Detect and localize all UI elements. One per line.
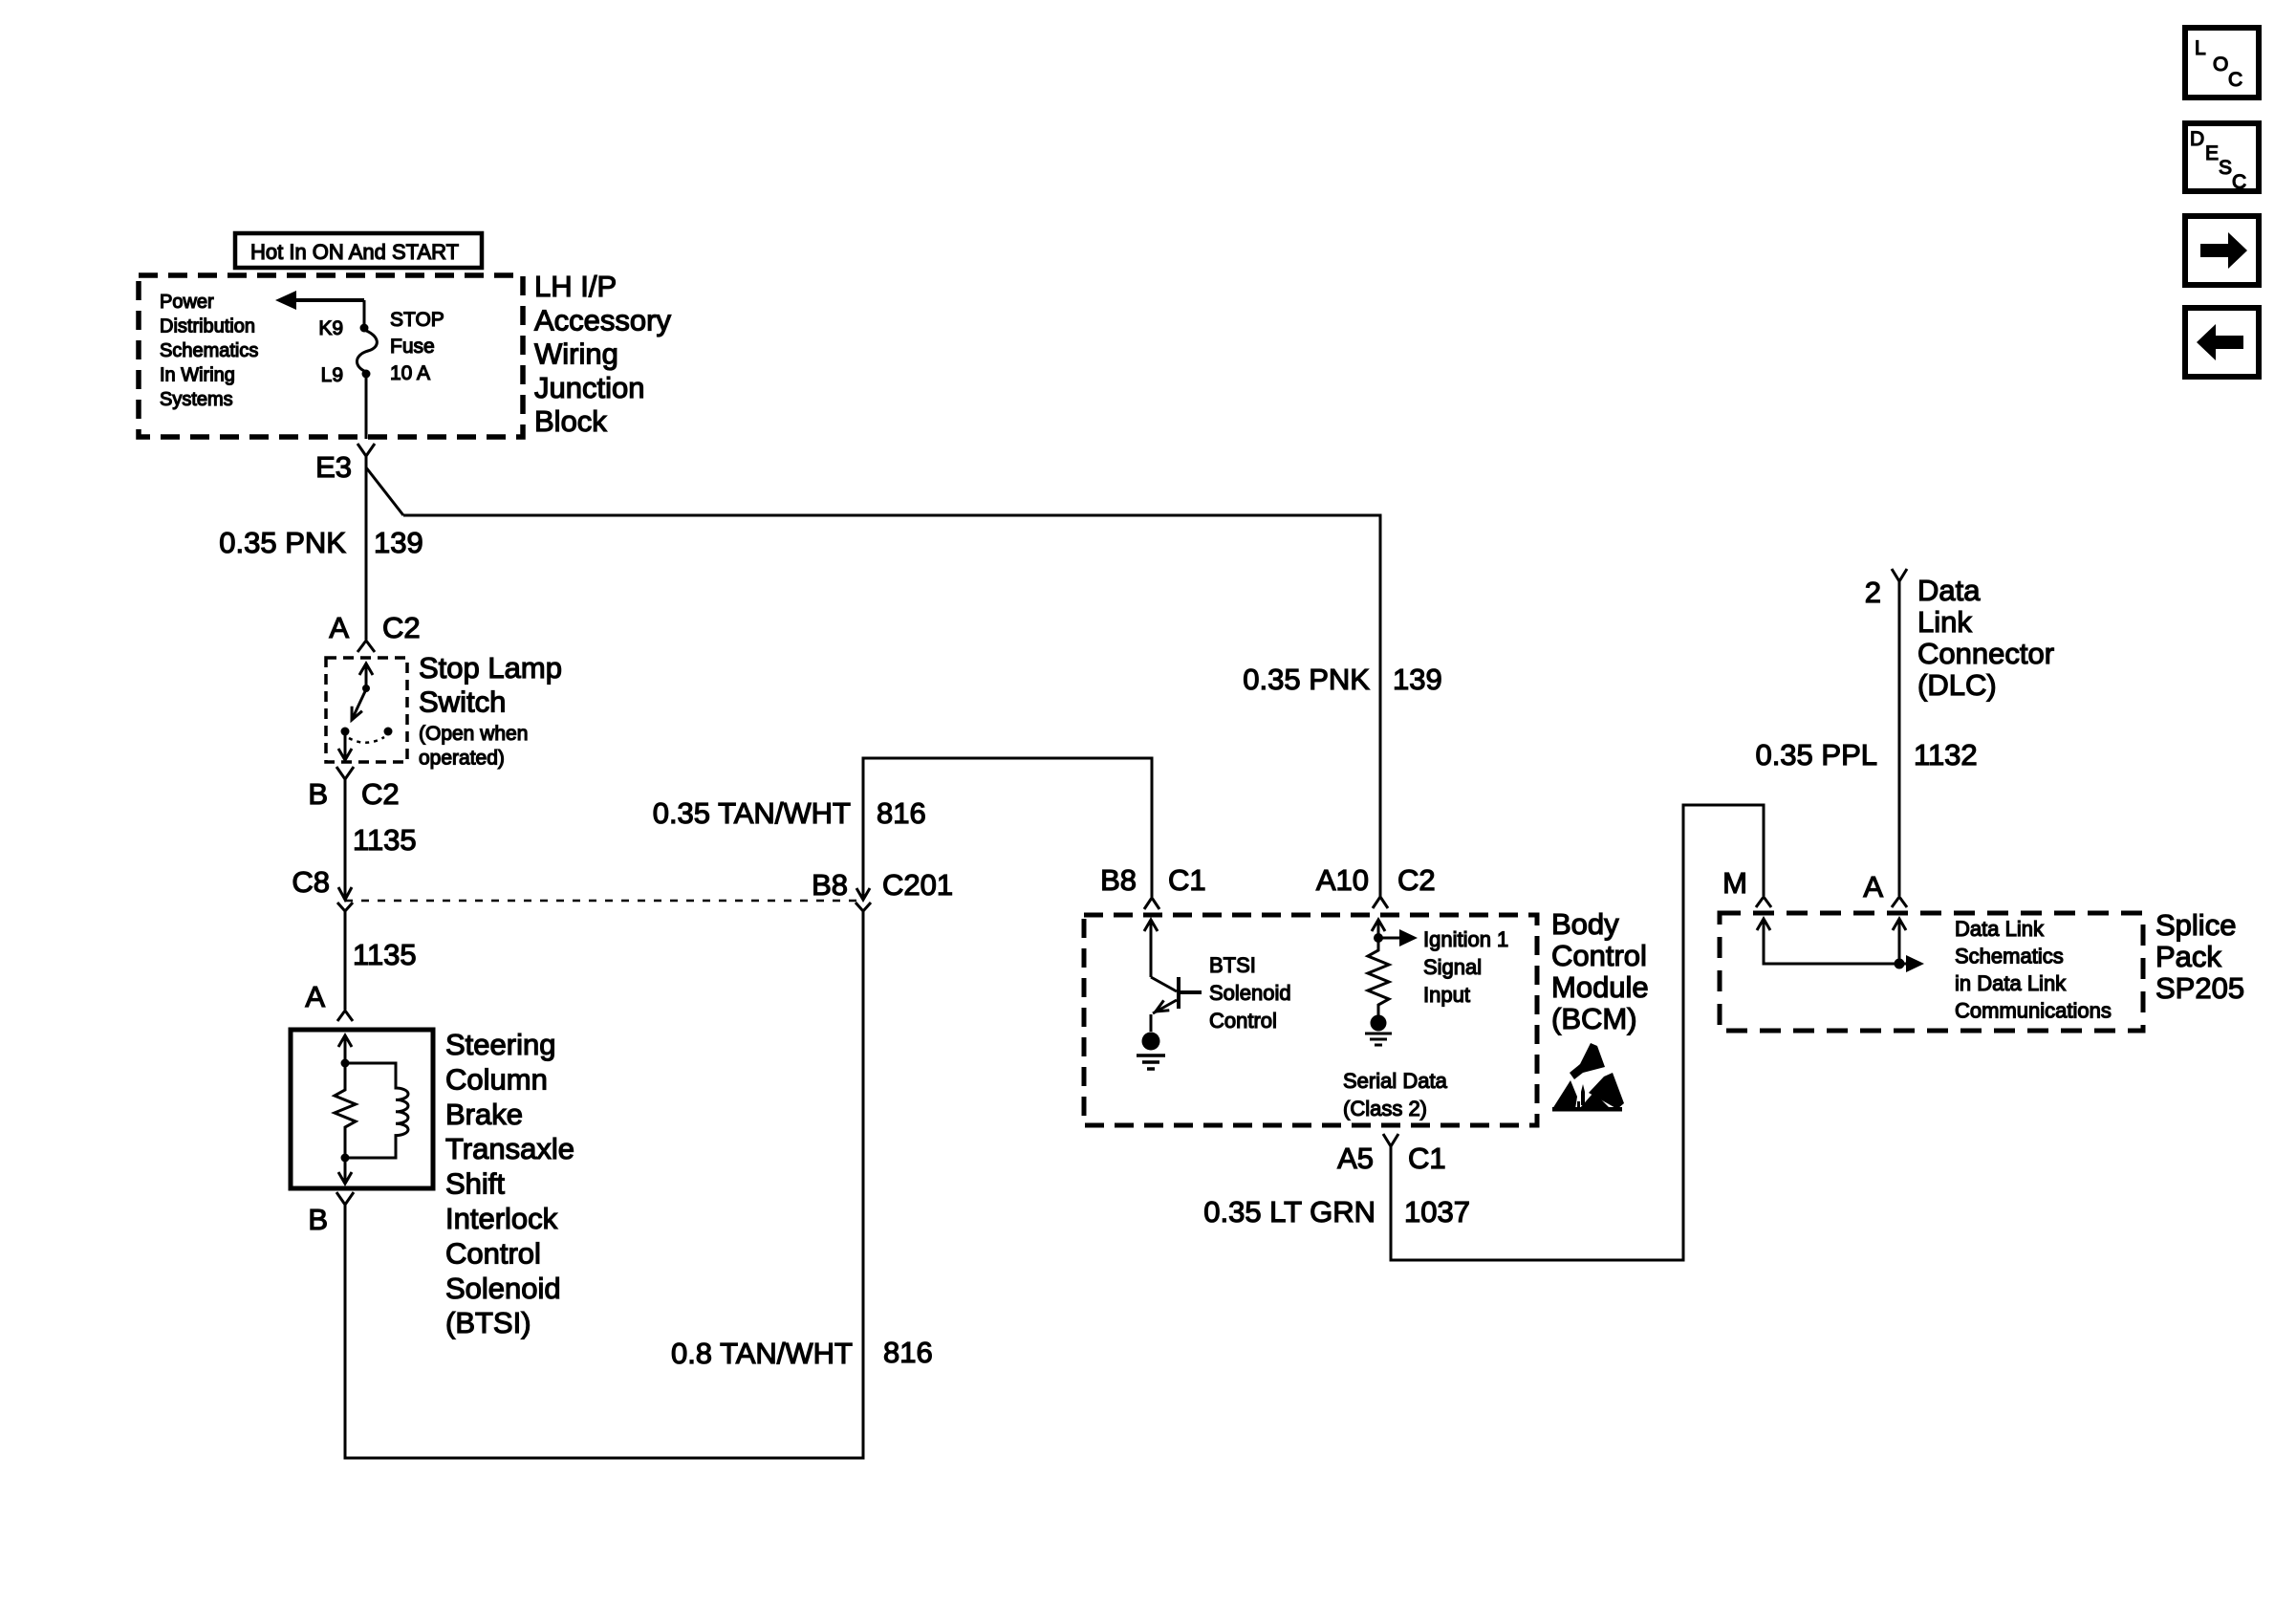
wire label 0.35 PNK 139 (middle) (1243, 663, 1441, 696)
resistor (ignition 1 signal input pull-up) (1368, 920, 1389, 1015)
transistor Q1: BTSI solenoid control driver (1144, 920, 1202, 1032)
wire label 0.35 PNK 139 (upper) (219, 526, 422, 559)
svg-text:1135: 1135 (353, 823, 417, 857)
wire 1132: DLC down to splice pack A (1898, 581, 1901, 896)
svg-text:B: B (308, 1203, 328, 1236)
collector wire (1150, 920, 1153, 977)
svg-text:1132: 1132 (1914, 738, 1978, 772)
svg-text:C8: C8 (292, 865, 330, 899)
svg-text:A5: A5 (1337, 1142, 1374, 1175)
wire 1037: BCM A5 down, right, up to splice pack M (1391, 805, 1764, 1260)
connector A / C2 labels (stop lamp switch) (329, 611, 420, 644)
svg-text:A10: A10 (1316, 863, 1369, 897)
svg-text:D: D (2190, 128, 2204, 150)
connector C201 at B8 (arrow above plane) (856, 888, 870, 900)
emitter wire to ground (1150, 1014, 1153, 1032)
closed contact dot (341, 728, 350, 736)
pivot contact dot (362, 685, 370, 692)
entry arrow up (359, 664, 373, 675)
exit wire (344, 735, 347, 759)
emitter arrowhead (1156, 1000, 1169, 1012)
svg-text:B8: B8 (1100, 863, 1137, 897)
svg-text:A: A (329, 611, 349, 644)
svg-text:C1: C1 (1168, 863, 1206, 897)
connector C201 plane (dashed line) (345, 900, 863, 903)
junction dot upper (341, 1059, 350, 1068)
wire label 0.35 TAN/WHT 816 (653, 796, 926, 830)
blade arrowhead (352, 707, 362, 720)
BTSI solenoid internals (335, 1035, 408, 1184)
connector C8 (arrow into C201 plane) (292, 865, 353, 911)
connector A10 / C2 into BCM (1316, 863, 1436, 908)
nav box forward arrow (2185, 216, 2259, 285)
svg-text:C: C (2232, 171, 2246, 193)
connector M into splice pack (1722, 866, 1771, 907)
wire label 0.8 TAN/WHT 816 (671, 1336, 933, 1370)
nav box back arrow (2185, 308, 2259, 377)
svg-text:139: 139 (1393, 663, 1442, 696)
open contact dot (384, 728, 393, 736)
nav box DESC (2185, 123, 2259, 193)
svg-text:0.35 PPL: 0.35 PPL (1755, 738, 1877, 772)
emitter lead (1153, 1000, 1177, 1013)
connector B / C2 (Y symbol below switch) (308, 767, 399, 811)
exit arrow down (338, 1172, 352, 1184)
wire to exit (344, 1158, 347, 1183)
junction dot lower (341, 1154, 350, 1163)
fuse element curve (357, 330, 377, 372)
wire: fuse feed to power distribution arrow (275, 291, 364, 326)
svg-text:816: 816 (883, 1336, 933, 1369)
nav box LOC (2185, 28, 2259, 98)
entry arrow up (338, 1035, 352, 1047)
svg-text:E: E (2205, 142, 2219, 164)
svg-text:B: B (308, 777, 328, 811)
svg-text:B8: B8 (812, 868, 848, 902)
svg-text:0.35 PNK: 0.35 PNK (219, 526, 346, 559)
svg-text:139: 139 (374, 526, 423, 559)
svg-text:M: M (1722, 866, 1747, 900)
svg-text:0.35 TAN/WHT: 0.35 TAN/WHT (653, 796, 851, 830)
ground (BTSI driver) (1137, 1033, 1165, 1070)
connector B8 / C1 into BCM (1100, 863, 1206, 909)
svg-text:S: S (2219, 157, 2232, 179)
exit arrow down (338, 749, 352, 760)
wire 1135 (C8 to BTSI solenoid) (344, 911, 347, 1010)
wire 816: BTSI B down, right, and up to C201 (345, 910, 863, 1458)
svg-text:L: L (2195, 37, 2206, 59)
svg-text:E3: E3 (315, 450, 352, 484)
svg-text:L9: L9 (321, 364, 343, 386)
svg-text:2: 2 (1865, 576, 1881, 609)
connector chevron above switch box (357, 641, 375, 652)
svg-text:C2: C2 (361, 777, 400, 811)
LH I/P accessory wiring junction block (dashed box) (139, 275, 523, 437)
ESD sensitive device symbol (1552, 1043, 1624, 1112)
connector B8 / C201 labels (812, 868, 953, 902)
inductor L1 coil winding (345, 1063, 408, 1158)
connector B (Y symbol below BTSI) (308, 1192, 354, 1236)
ground (ignition pull-down) (1365, 1015, 1392, 1046)
connector A into splice pack (1863, 870, 1907, 907)
svg-text:Hot In ON And START: Hot In ON And START (250, 240, 459, 264)
wire horizontal to arrow (292, 298, 364, 302)
dashed travel arc (349, 737, 384, 743)
solenoid L1: BTSI solenoid box (291, 1030, 433, 1188)
signal arrow to Ignition 1 label (1378, 929, 1418, 946)
wire: long horizontal run to BCM A10 (403, 515, 1380, 897)
arrowhead to power distribution schematics (275, 291, 296, 310)
svg-text:0.35 LT GRN: 0.35 LT GRN (1203, 1195, 1375, 1229)
svg-text:816: 816 (877, 796, 926, 830)
connector chevron below C201 at B8 (856, 903, 871, 911)
connector A (BTSI solenoid) (305, 980, 353, 1021)
collector lead (1151, 977, 1177, 991)
wire: branch diagonal from E3 to horizontal run (366, 468, 403, 515)
svg-text:C201: C201 (882, 868, 953, 902)
stop lamp switch dashed box (326, 658, 407, 762)
connector A5 / C1 below BCM (1337, 1134, 1446, 1175)
svg-text:0.8 TAN/WHT: 0.8 TAN/WHT (671, 1337, 853, 1370)
BCM dashed box (1084, 915, 1537, 1125)
wire 816: from C201 up, right, down into BCM B8 (863, 758, 1152, 900)
svg-text:C2: C2 (1397, 863, 1436, 897)
svg-text:O: O (2213, 54, 2228, 76)
wire: E3 down to stop lamp switch (365, 456, 368, 640)
junction dot pin K9 (360, 324, 369, 333)
wire: fuse to box bottom (365, 378, 368, 439)
switch blade (352, 689, 366, 720)
resistor R (suppression) (335, 1063, 356, 1158)
splice pack SP205 dashed box (1720, 913, 2143, 1031)
wire label 0.35 PPL 1132 (1755, 738, 1977, 772)
entry arrow up at pin B8 (1144, 920, 1158, 931)
svg-text:A: A (305, 980, 325, 1013)
wire label 0.35 LT GRN 1037 (1203, 1195, 1470, 1229)
svg-text:0.35 PNK: 0.35 PNK (1243, 663, 1370, 696)
wire to pivot (365, 664, 368, 687)
svg-text:C: C (2228, 69, 2242, 91)
connector E3 (Y symbol) (315, 444, 375, 484)
svg-text:1037: 1037 (1404, 1195, 1470, 1229)
fuse F: STOP Fuse 10 A (357, 324, 377, 379)
svg-text:K9: K9 (318, 317, 343, 339)
svg-text:C1: C1 (1408, 1142, 1446, 1175)
svg-text:1135: 1135 (353, 938, 417, 971)
splice pack internals: M and A joined to data link (1757, 919, 1924, 972)
svg-text:A: A (1863, 870, 1883, 903)
wire vertical to fuse pin K9 (363, 300, 366, 326)
wire to upper node (344, 1035, 347, 1062)
title box "Hot In ON And START" (235, 233, 482, 268)
base lead (1179, 990, 1202, 994)
junction dot pin L9 (362, 370, 371, 379)
svg-text:C2: C2 (382, 611, 421, 644)
connector 2 at DLC (Y symbol) (1865, 569, 1907, 609)
wire 1135 (switch to C8) (344, 779, 347, 899)
switch S1: stop lamp switch internals (338, 664, 393, 760)
base bar (1177, 977, 1180, 1009)
